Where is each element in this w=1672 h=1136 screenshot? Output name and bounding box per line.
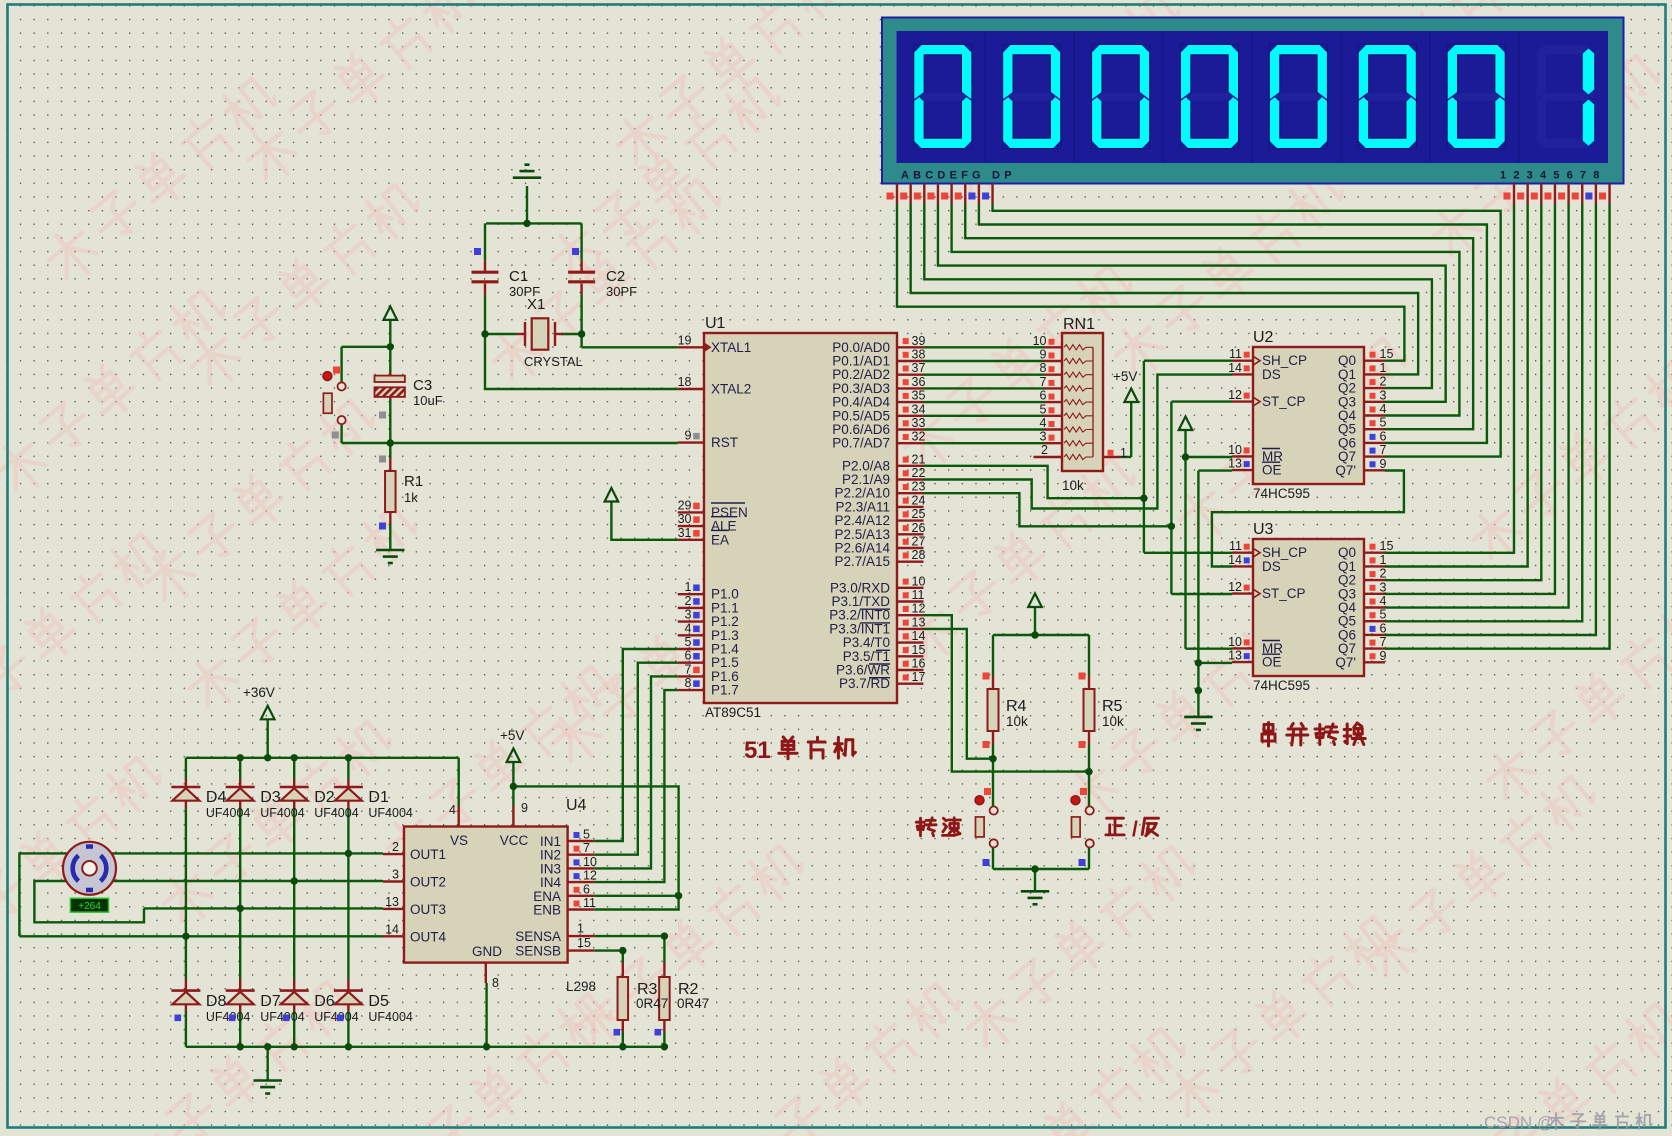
- svg-text:CRYSTAL: CRYSTAL: [524, 354, 583, 369]
- svg-text:30: 30: [678, 512, 692, 526]
- svg-text:OUT2: OUT2: [410, 875, 446, 890]
- svg-text:10k: 10k: [1102, 714, 1124, 729]
- svg-text:R4: R4: [1006, 698, 1027, 715]
- svg-text:74HC595: 74HC595: [1253, 678, 1310, 693]
- svg-text:P2.7/A15: P2.7/A15: [834, 554, 890, 569]
- svg-text:17: 17: [912, 670, 926, 684]
- svg-text:7: 7: [1380, 635, 1387, 649]
- svg-text:D6: D6: [314, 993, 335, 1010]
- svg-text:3: 3: [685, 608, 692, 622]
- svg-text:XTAL1: XTAL1: [711, 340, 751, 355]
- svg-text:11: 11: [583, 896, 596, 910]
- svg-text:L298: L298: [566, 979, 596, 994]
- svg-text:/: /: [1132, 818, 1138, 841]
- svg-text:U4: U4: [566, 797, 587, 814]
- svg-text:25: 25: [912, 507, 926, 521]
- svg-text:D4: D4: [206, 789, 227, 806]
- svg-text:4: 4: [685, 621, 692, 635]
- svg-text:XTAL2: XTAL2: [711, 382, 751, 397]
- svg-text:32: 32: [912, 430, 926, 444]
- svg-text:14: 14: [385, 922, 399, 936]
- svg-text:ST_CP: ST_CP: [1262, 394, 1306, 409]
- svg-text:11: 11: [1229, 539, 1242, 553]
- svg-text:OUT3: OUT3: [410, 902, 446, 917]
- svg-text:6: 6: [685, 649, 692, 663]
- svg-text:13: 13: [1228, 457, 1242, 471]
- svg-text:P3.7/RD: P3.7/RD: [839, 676, 890, 691]
- svg-text:C2: C2: [606, 268, 625, 285]
- svg-text:18: 18: [678, 375, 692, 389]
- svg-text:D7: D7: [260, 993, 281, 1010]
- svg-text:DS: DS: [1262, 367, 1281, 382]
- svg-text:+264: +264: [78, 901, 101, 912]
- svg-text:UF4004: UF4004: [314, 1010, 359, 1024]
- svg-text:12: 12: [1228, 580, 1242, 594]
- svg-text:D3: D3: [260, 789, 281, 806]
- svg-text:14: 14: [1228, 553, 1242, 567]
- svg-text:21: 21: [912, 452, 926, 466]
- svg-text:26: 26: [912, 521, 926, 535]
- svg-text:10: 10: [1033, 334, 1047, 348]
- svg-text:1: 1: [577, 922, 584, 936]
- svg-text:6: 6: [1380, 621, 1387, 635]
- svg-text:EA: EA: [711, 532, 729, 547]
- svg-text:14: 14: [912, 629, 926, 643]
- svg-text:7: 7: [583, 841, 590, 855]
- svg-text:5: 5: [1380, 608, 1387, 622]
- svg-text:16: 16: [912, 657, 926, 671]
- svg-text:DS: DS: [1262, 559, 1281, 574]
- svg-text:9: 9: [685, 429, 692, 443]
- svg-text:15: 15: [577, 936, 591, 950]
- svg-text:12: 12: [912, 602, 926, 616]
- svg-text:1: 1: [685, 580, 692, 594]
- svg-text:+5V: +5V: [500, 728, 524, 743]
- svg-text:CSDN @: CSDN @: [1484, 1113, 1554, 1132]
- svg-text:51: 51: [744, 737, 771, 764]
- svg-text:3: 3: [1380, 580, 1387, 594]
- svg-text:UF4004: UF4004: [260, 1010, 305, 1024]
- svg-text:12345678: 12345678: [1500, 170, 1607, 182]
- svg-text:U2: U2: [1253, 329, 1274, 346]
- svg-text:22: 22: [912, 466, 926, 480]
- svg-text:UF4004: UF4004: [368, 1010, 413, 1024]
- svg-text:R5: R5: [1102, 698, 1123, 715]
- svg-text:UF4004: UF4004: [206, 1010, 251, 1024]
- svg-text:1k: 1k: [404, 490, 418, 505]
- svg-text:23: 23: [912, 480, 926, 494]
- svg-text:UF4004: UF4004: [314, 806, 359, 820]
- svg-text:2: 2: [685, 594, 692, 608]
- svg-text:GND: GND: [472, 944, 502, 959]
- svg-text:38: 38: [912, 348, 926, 362]
- svg-text:5: 5: [583, 828, 590, 842]
- svg-text:X1: X1: [527, 296, 545, 313]
- svg-text:RST: RST: [711, 435, 738, 450]
- svg-text:ENB: ENB: [533, 903, 561, 918]
- svg-text:15: 15: [1380, 347, 1394, 361]
- svg-text:30PF: 30PF: [606, 284, 637, 299]
- svg-text:OE: OE: [1262, 463, 1282, 478]
- svg-text:39: 39: [912, 334, 926, 348]
- svg-text:4: 4: [1380, 402, 1387, 416]
- svg-text:1: 1: [1380, 361, 1387, 375]
- svg-text:11: 11: [912, 588, 925, 602]
- svg-text:9: 9: [1040, 348, 1047, 362]
- svg-text:2: 2: [392, 840, 399, 854]
- svg-text:+5V: +5V: [1113, 369, 1137, 384]
- svg-text:OUT4: OUT4: [410, 929, 446, 944]
- svg-text:5: 5: [685, 635, 692, 649]
- svg-text:0R47: 0R47: [636, 996, 668, 1011]
- svg-text:10k: 10k: [1062, 478, 1084, 493]
- svg-text:2: 2: [1380, 567, 1387, 581]
- svg-text:8: 8: [492, 976, 499, 990]
- svg-text:P0.7/AD7: P0.7/AD7: [832, 436, 890, 451]
- svg-text:1: 1: [1120, 446, 1127, 460]
- svg-text:33: 33: [912, 416, 926, 430]
- svg-text:10: 10: [1228, 635, 1242, 649]
- svg-text:31: 31: [678, 526, 692, 540]
- svg-text:12: 12: [1228, 388, 1242, 402]
- svg-text:12: 12: [583, 869, 597, 883]
- svg-text:13: 13: [912, 615, 926, 629]
- svg-text:7: 7: [1380, 443, 1387, 457]
- svg-text:11: 11: [1229, 347, 1242, 361]
- svg-text:UF4004: UF4004: [206, 806, 251, 820]
- svg-text:10: 10: [912, 574, 926, 588]
- svg-text:8: 8: [685, 676, 692, 690]
- svg-text:D8: D8: [206, 993, 227, 1010]
- svg-text:7: 7: [685, 662, 692, 676]
- svg-text:U3: U3: [1253, 521, 1274, 538]
- svg-text:6: 6: [1040, 389, 1047, 403]
- svg-text:Q7': Q7': [1335, 655, 1356, 670]
- svg-text:37: 37: [912, 361, 926, 375]
- svg-text:19: 19: [678, 333, 692, 347]
- svg-text:74HC595: 74HC595: [1253, 486, 1310, 501]
- svg-text:4: 4: [449, 803, 456, 817]
- svg-text:5: 5: [1040, 402, 1047, 416]
- svg-text:4: 4: [1040, 416, 1047, 430]
- svg-text:C3: C3: [413, 377, 432, 394]
- svg-text:10k: 10k: [1006, 714, 1028, 729]
- svg-text:5: 5: [1380, 416, 1387, 430]
- svg-text:36: 36: [912, 375, 926, 389]
- svg-text:14: 14: [1228, 361, 1242, 375]
- svg-text:RN1: RN1: [1063, 316, 1095, 333]
- svg-text:D2: D2: [314, 789, 335, 806]
- svg-text:VCC: VCC: [500, 833, 529, 848]
- svg-text:15: 15: [912, 643, 926, 657]
- svg-text:15: 15: [1380, 539, 1394, 553]
- svg-text:UF4004: UF4004: [260, 806, 305, 820]
- svg-text:28: 28: [912, 548, 926, 562]
- svg-text:SENSB: SENSB: [515, 944, 561, 959]
- svg-text:6: 6: [583, 882, 590, 896]
- svg-text:27: 27: [912, 535, 926, 549]
- svg-text:10: 10: [583, 855, 597, 869]
- svg-text:UF4004: UF4004: [368, 806, 413, 820]
- svg-text:6: 6: [1380, 429, 1387, 443]
- svg-text:OUT1: OUT1: [410, 847, 446, 862]
- svg-text:D5: D5: [368, 993, 389, 1010]
- svg-text:13: 13: [1228, 649, 1242, 663]
- svg-text:9: 9: [1380, 649, 1387, 663]
- svg-text:3: 3: [392, 868, 399, 882]
- svg-text:10: 10: [1228, 443, 1242, 457]
- svg-text:ABCDEFG DP: ABCDEFG DP: [901, 170, 1016, 182]
- svg-text:D1: D1: [368, 789, 389, 806]
- svg-text:0R47: 0R47: [677, 996, 709, 1011]
- svg-text:R1: R1: [404, 473, 423, 490]
- svg-text:9: 9: [521, 801, 528, 815]
- svg-text:C1: C1: [509, 268, 528, 285]
- svg-text:U1: U1: [705, 315, 726, 332]
- svg-text:VS: VS: [450, 833, 468, 848]
- svg-text:Q7': Q7': [1335, 463, 1356, 478]
- svg-text:+36V: +36V: [243, 685, 275, 700]
- svg-text:AT89C51: AT89C51: [705, 705, 761, 720]
- svg-text:34: 34: [912, 402, 926, 416]
- svg-text:1: 1: [1380, 553, 1387, 567]
- svg-text:OE: OE: [1262, 655, 1282, 670]
- svg-text:3: 3: [1380, 388, 1387, 402]
- svg-text:10uF: 10uF: [413, 393, 443, 408]
- svg-text:3: 3: [1040, 430, 1047, 444]
- svg-text:SENSA: SENSA: [515, 929, 561, 944]
- svg-text:2: 2: [1041, 443, 1048, 457]
- svg-text:9: 9: [1380, 457, 1387, 471]
- svg-text:2: 2: [1380, 375, 1387, 389]
- svg-text:8: 8: [1040, 361, 1047, 375]
- svg-text:4: 4: [1380, 594, 1387, 608]
- svg-text:13: 13: [385, 895, 399, 909]
- svg-text:7: 7: [1040, 375, 1047, 389]
- svg-text:29: 29: [678, 498, 692, 512]
- svg-text:P1.7: P1.7: [711, 683, 739, 698]
- svg-text:24: 24: [912, 493, 926, 507]
- svg-text:35: 35: [912, 389, 926, 403]
- svg-text:ST_CP: ST_CP: [1262, 586, 1306, 601]
